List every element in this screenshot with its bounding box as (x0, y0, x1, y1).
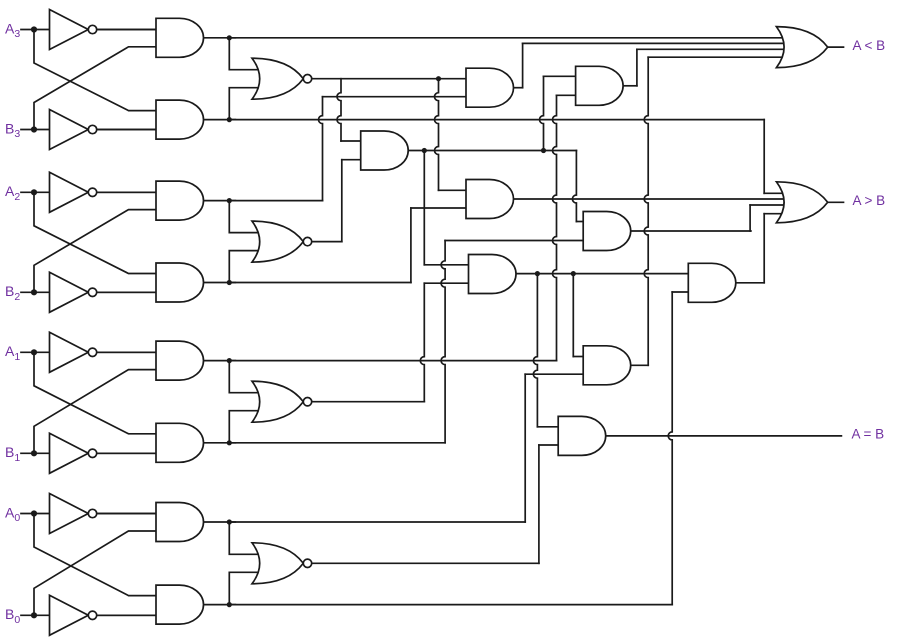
wire cross B1 to upper AND (34, 370, 156, 454)
wire lead A>B input 3 (750, 204, 786, 206)
wire AND output to node, bit 2 lower (204, 282, 236, 284)
wire node to NOR input, bit 3 lower (229, 88, 264, 120)
wire riser U_mid3 out to A<B or-gate (636, 49, 638, 86)
wire node to NOR input, bit 1 upper (229, 361, 264, 393)
node A0 AND output lower (227, 602, 232, 607)
wire net A3.B3n (229, 119, 764, 121)
wire output A>B (828, 201, 844, 203)
wire cross A2 to lower AND (34, 192, 156, 273)
node input B0 (31, 612, 37, 618)
node x3.x2.x1 branch right (571, 271, 576, 276)
NOR gate x2 (XNOR bit 2) (252, 221, 303, 262)
wire lead A<B input 3 (637, 48, 787, 50)
wire net U_mid6 output (631, 230, 751, 232)
wire input B3 (21, 129, 156, 131)
wire node to NOR input, bit 0 upper (229, 522, 264, 554)
wire net NOR3 output x3 (312, 78, 466, 80)
AND gate A0.B0n (156, 585, 204, 624)
AND gate U_mid1 x3.A2n.B2 (466, 68, 514, 107)
wire NOT B2 output (93, 291, 157, 293)
inverter NOT A0 (50, 494, 89, 534)
inverter NOT A1 (50, 332, 89, 372)
wire riser x3.x2.x1 to U_eq (533, 274, 537, 427)
wire NOT B1 output (93, 452, 157, 454)
AND gate A2n.B2 (156, 181, 204, 220)
wire riser A0.B0n to U_mid7 (668, 292, 672, 605)
node input A2 (31, 189, 37, 195)
wire U_mid6 upper input (576, 221, 583, 223)
wire node to NOR input, bit 3 upper (229, 38, 264, 70)
inverter NOT B3 (50, 110, 89, 150)
wire net NOR1 output x1 (312, 401, 425, 403)
wire U_mid2 upper input (341, 140, 361, 142)
wire net x3.x2 (408, 150, 576, 152)
AND gate U_mid7 x3x2x1.A0.B0n (688, 263, 736, 302)
wire net U_mid4 lower input (411, 207, 466, 209)
wire input B1 (21, 452, 156, 454)
wire net U_mid6 lower input (445, 240, 583, 242)
node input B2 (31, 289, 37, 295)
node A2 AND output lower (227, 280, 232, 285)
node A1 AND output upper (227, 358, 232, 363)
AND gate U_mid2 x3.x2 (361, 131, 409, 170)
wire riser x0 to U_eq (538, 445, 540, 563)
wire net NOR0 output x0 (312, 562, 539, 564)
AND gate A2.B2n (156, 263, 204, 302)
wire NOT B0 output (93, 614, 157, 616)
node input B1 (31, 450, 37, 456)
node A0 AND output upper (227, 519, 232, 524)
wire input B2 (21, 291, 156, 293)
wire AND output to node, bit 1 lower (204, 442, 236, 444)
wire cross B3 to upper AND (34, 47, 156, 130)
wire net U_mid3 output (623, 85, 637, 87)
wire riser A1n.B1 to U_mid3 (553, 95, 557, 360)
NOR gate x1 (XNOR bit 1) (252, 381, 303, 422)
wire riser U_mid7 out to A>B or-gate (763, 214, 765, 283)
wire node to NOR input, bit 1 lower (229, 411, 264, 443)
wire net U_mid7 output (736, 282, 764, 284)
inverter NOT B1 (50, 433, 89, 473)
wire net A1.B1n (230, 442, 445, 444)
wire lead A<B input 2 (523, 42, 787, 44)
wire U_mid4 upper input (439, 189, 467, 191)
wire U_mid7 lower input (672, 291, 688, 293)
wire riser x3 to U_mid2 (337, 79, 341, 141)
wire net A2n.B2 (230, 200, 323, 202)
inverter NOT B2 (50, 272, 89, 312)
wire net U_mid5 upper input (424, 264, 468, 266)
wire lead A>B input 1 (764, 192, 786, 194)
NOR gate x0 (XNOR bit 0) (252, 543, 303, 584)
inverter NOT A3 (50, 10, 89, 50)
wire U_mid8 upper input (573, 356, 583, 358)
wire net A1n.B1 (230, 360, 557, 362)
wire input A0 (21, 513, 156, 515)
wire riser x3 to U_mid4 (435, 79, 439, 191)
node input B3 (31, 126, 37, 132)
wire cross B2 to upper AND (34, 210, 156, 293)
OR gate A<B (776, 27, 827, 68)
node input A3 (31, 26, 37, 32)
node A3 AND output lower (227, 117, 232, 122)
wire input A1 (21, 351, 156, 353)
NOR gate x3 (XNOR bit 3) (252, 58, 303, 99)
wire net U_mid1 lower input (323, 96, 467, 98)
AND gate A1.B1n (156, 423, 204, 462)
wire AND output to node, bit 3 upper (204, 37, 236, 39)
node A3 AND output upper (227, 35, 232, 40)
node x3 branch (436, 76, 441, 81)
node x3.x2.x1 branch left (535, 271, 540, 276)
wire AND output to node, bit 0 lower (204, 604, 236, 606)
inverter NOT B0 (50, 595, 89, 635)
AND gate A1n.B1 (156, 341, 204, 380)
wire net U_mid4 output to A>B or-gate (514, 198, 787, 200)
wire lead A<B input 4 (648, 56, 786, 58)
AND gate U_mid4 x3.A2.B2n (466, 180, 514, 219)
wire NOT A1 output (93, 351, 157, 353)
AND gate A0n.B0 (156, 503, 204, 542)
wire U_mid3 lower input (557, 94, 576, 96)
wire node to NOR input, bit 0 lower (229, 572, 264, 604)
wire NOT A0 output (93, 513, 157, 515)
wire NOT A2 output (93, 191, 157, 193)
wire riser x3.x2.x1 to U_mid8 (572, 274, 574, 357)
OR gate A>B (776, 182, 827, 223)
node A1 AND output lower (227, 440, 232, 445)
AND gate U_mid3 x3x2.A1n.B1 (576, 66, 624, 105)
wire input A3 (21, 29, 156, 31)
wire AND output to node, bit 1 upper (204, 360, 236, 362)
node input A0 (31, 510, 37, 516)
wire riser A2n.B2 to U_mid1 (319, 97, 323, 201)
wire riser x3.x2 to U_mid5 (423, 151, 425, 265)
wire NOT A3 output (93, 29, 157, 31)
wire AND output to node, bit 3 lower (204, 119, 236, 121)
svg-text:A > B: A > B (853, 193, 886, 208)
AND gate U_eq A=B (558, 416, 606, 455)
wire net A=B output (606, 435, 842, 437)
wire output A<B (828, 46, 844, 48)
node x3.x2 branch right (541, 148, 546, 153)
inverter NOT A2 (50, 172, 89, 212)
wire net A0n.B0 (230, 521, 525, 523)
wire AND output to node, bit 2 upper (204, 200, 236, 202)
wire net U_mid8 lower input (525, 373, 583, 375)
AND gate A3.B3n (156, 100, 204, 139)
wire net U_mid8 output (631, 364, 649, 366)
wire NOT B3 output (93, 129, 157, 131)
AND gate U_mid8 x3x2x1.A0n.B0 (583, 346, 631, 385)
node x3.x2 branch left (422, 148, 427, 153)
wire riser A2.B2n to U_mid4 (410, 208, 412, 283)
wire cross B0 to upper AND (34, 531, 156, 615)
wire cross A3 to lower AND (34, 30, 156, 111)
wire riser x2 to U_mid2 (341, 160, 343, 242)
node A2 AND output upper (227, 198, 232, 203)
wire U_eq upper input (537, 426, 558, 428)
wire AND output to node, bit 0 upper (204, 521, 236, 523)
wire cross A0 to lower AND (34, 514, 156, 596)
AND gate U_mid6 x3x2.A1.B1n (583, 212, 631, 251)
wire input A2 (21, 191, 156, 193)
wire net A3n.B3 to A<B or-gate (229, 37, 786, 39)
AND gate A3n.B3 (156, 18, 204, 57)
wire U_eq lower input (539, 444, 558, 446)
wire U_mid3 upper input (544, 75, 576, 77)
wire net NOR2 output x2 (312, 241, 342, 243)
wire node to NOR input, bit 2 upper (229, 201, 264, 233)
wire riser U_mid6 out to A>B or-gate (749, 205, 751, 231)
wire net A0.B0n (230, 604, 672, 606)
wire cross A1 to lower AND (34, 352, 156, 434)
wire net A2.B2n (230, 282, 411, 284)
wire riser A1.B1n to U_mid6 (441, 241, 445, 443)
wire riser A0n.B0 to U_mid8 (524, 374, 526, 522)
wire U_mid2 lower input (342, 159, 361, 161)
svg-text:A < B: A < B (853, 38, 886, 53)
wire input B0 (21, 614, 156, 616)
node input A1 (31, 349, 37, 355)
wire riser x3.x2 to U_mid3 (540, 76, 544, 150)
wire riser A3.B3n to A>B or-gate (763, 120, 765, 194)
wire riser x3.x2 to U_mid6 (572, 151, 576, 222)
wire riser x1 to U_mid5 (420, 283, 424, 402)
wire riser U_mid1 out to A<B or-gate (522, 43, 524, 87)
wire lead A>B input 4 (764, 213, 786, 215)
AND gate U_mid5 x3.x2.x1 (469, 255, 517, 294)
wire node to NOR input, bit 2 lower (229, 251, 264, 283)
wire net U_mid1 output (514, 87, 523, 89)
wire net U_mid5 lower input (424, 282, 468, 284)
wire net U_mid5 output x3.x2.x1 (516, 273, 688, 275)
svg-text:A = B: A = B (852, 427, 885, 442)
wire riser U_mid8 out to A<B or-gate (644, 57, 648, 365)
